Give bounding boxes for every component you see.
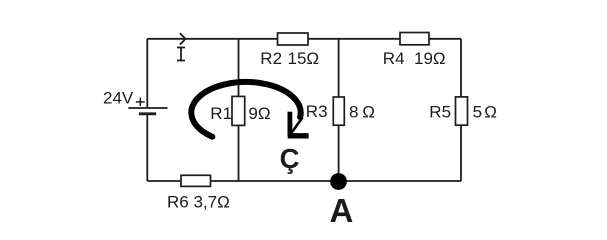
resistor R3 (333, 97, 344, 125)
svg-text:A: A (330, 192, 354, 229)
current arrow (180, 33, 185, 44)
mesh current arc (191, 82, 300, 137)
wire left rail upper (146, 39, 148, 108)
mesh arrow shaft end (291, 118, 303, 134)
wire right rail (460, 39, 462, 181)
wire top rail (147, 38, 461, 40)
svg-text:R3: R3 (306, 102, 328, 121)
svg-text:8: 8 (349, 102, 358, 121)
resistor R5 (456, 97, 468, 125)
svg-text:Ç: Ç (280, 143, 300, 174)
resistor R1 (232, 96, 245, 125)
wire left rail lower (146, 115, 148, 182)
svg-text:R4: R4 (383, 49, 405, 68)
battery plus sign (136, 98, 145, 107)
battery V1 short plate (139, 112, 156, 115)
svg-text:19Ω: 19Ω (414, 49, 446, 68)
label I (177, 48, 185, 61)
battery V1 long plate (128, 107, 167, 109)
svg-text:9Ω: 9Ω (248, 104, 270, 123)
mesh arrowhead (288, 112, 309, 137)
svg-text:R1: R1 (210, 104, 232, 123)
svg-text:R5: R5 (429, 103, 451, 122)
node A dot (330, 173, 347, 190)
resistor R4 (400, 33, 429, 45)
svg-text:Ω: Ω (362, 102, 375, 121)
svg-text:24V: 24V (103, 89, 134, 108)
resistor R2 (278, 33, 309, 45)
svg-text:R2: R2 (260, 49, 282, 68)
wire R1 branch (238, 39, 240, 181)
svg-text:R6 3,7Ω: R6 3,7Ω (167, 192, 230, 211)
wire bottom rail (147, 180, 461, 182)
wire R3 branch (338, 39, 340, 181)
svg-text:Ω: Ω (484, 103, 497, 122)
resistor R6 (181, 175, 211, 186)
svg-text:5: 5 (473, 103, 482, 122)
svg-text:15Ω: 15Ω (288, 49, 320, 68)
